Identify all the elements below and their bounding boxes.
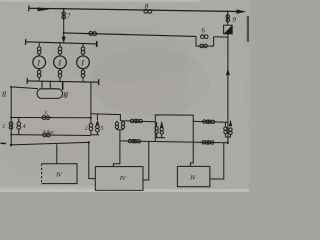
pump I circle 3 (77, 56, 90, 69)
wire suction drop to line 3 (90, 82, 92, 118)
bypass loop below valve 6 (196, 36, 214, 46)
tick left end of header (25, 39, 27, 45)
reservoir box C (177, 166, 210, 186)
svg-text:3 бис: 3 бис (41, 129, 55, 136)
pump I circle 1 (33, 56, 46, 69)
wire line T left segment (120, 121, 155, 122)
valve pair on line B right (202, 141, 205, 144)
wire drop to line B (119, 130, 121, 141)
svg-text:9: 9 (232, 16, 236, 24)
arrow up on right stub of right module (229, 120, 232, 127)
tank III (37, 89, 63, 99)
valve pair on line T right (203, 120, 206, 123)
wire hook to box B right (143, 141, 149, 180)
svg-text:8: 8 (145, 1, 149, 10)
manifold C left edge down (154, 122, 156, 142)
svg-text:3.: 3. (43, 110, 49, 116)
tick left end of top bus (28, 5, 30, 11)
svg-text:7: 7 (67, 13, 71, 20)
svg-text:5: 5 (100, 126, 103, 132)
wire right riser lower (227, 34, 229, 143)
wire top bus (29, 8, 244, 11)
bypass loop valve (200, 44, 204, 48)
wire line B (120, 141, 228, 143)
right edge smudge (247, 16, 249, 42)
wire feed to box B middle (113, 141, 120, 167)
valve 8 (144, 9, 148, 13)
valve pair on line B left (128, 139, 131, 142)
arrowhead up on right riser (226, 69, 230, 76)
wire hook to box C right (210, 143, 224, 179)
wire suction bus (27, 81, 99, 82)
tick right end suction bus (98, 79, 100, 85)
wire drop to tank III left (41, 81, 43, 89)
wire pump header (26, 42, 98, 44)
wire line 3-bis (11, 134, 91, 137)
arrowhead right end of top bus (237, 9, 247, 13)
valve 1 (9, 122, 13, 126)
join bar (155, 137, 165, 139)
wire drop to tank III right end (62, 82, 64, 90)
reservoir box B (95, 167, 143, 191)
svg-text:4: 4 (23, 123, 26, 130)
pump unit 3 (82, 44, 84, 47)
pump unit 1 (38, 42, 40, 46)
reservoir box A (42, 164, 77, 184)
arrow up at valve 5 (96, 120, 99, 125)
parallel valve stubs module at right riser (224, 122, 226, 127)
valve 4 (17, 122, 21, 126)
svg-text:2: 2 (85, 126, 88, 132)
pump I circle 2 (54, 56, 67, 69)
wire line F bottom left (11, 142, 89, 145)
wire second bus (64, 33, 196, 37)
wire F corner down to box B (89, 142, 96, 178)
wire feed to box A (56, 144, 58, 163)
wire stub valve 4 (18, 118, 20, 122)
valve 5 (96, 114, 98, 120)
water tower 9 symbol (224, 25, 233, 34)
junction dots (63, 8, 65, 10)
valve pair on line T left (130, 119, 133, 122)
wire II riser (10, 87, 12, 145)
arrowhead down to pump header (62, 37, 66, 44)
valve 3 (42, 116, 46, 120)
svg-text:6: 6 (202, 28, 206, 35)
valve on second bus (89, 32, 93, 36)
tick at image left edge (1, 142, 7, 144)
valve 2 (90, 118, 92, 123)
manifold B top edge (91, 114, 121, 121)
parallel valve stubs module at manifold C (156, 122, 158, 127)
tick left end suction bus (26, 78, 28, 84)
wire drop to tank III right (49, 81, 51, 89)
wire feed to box C (190, 121, 193, 166)
valve 9 (226, 15, 230, 19)
wire second bus to right riser (214, 36, 228, 38)
arrow up on right stub (160, 121, 163, 128)
wire line 3 (11, 117, 91, 119)
tick right end of header (96, 41, 98, 47)
join bar under valves 2,5 (91, 134, 99, 136)
wire from II riser to tank (11, 87, 38, 89)
flow arrow on top bus (38, 7, 50, 11)
wire line T right segment (193, 120, 228, 123)
paper background (0, 0, 249, 192)
valve 7 (62, 12, 65, 16)
manifold C top edge (155, 115, 193, 122)
valve 6 on main line (201, 35, 205, 39)
join bar (225, 136, 230, 138)
parallel valve stubs module at manifold B corner (116, 121, 118, 122)
wire right riser (227, 11, 229, 25)
svg-text:1: 1 (2, 123, 5, 130)
valve 3-bis (43, 133, 47, 137)
pump unit 2 (59, 43, 61, 47)
wire riser from top bus (63, 9, 65, 38)
